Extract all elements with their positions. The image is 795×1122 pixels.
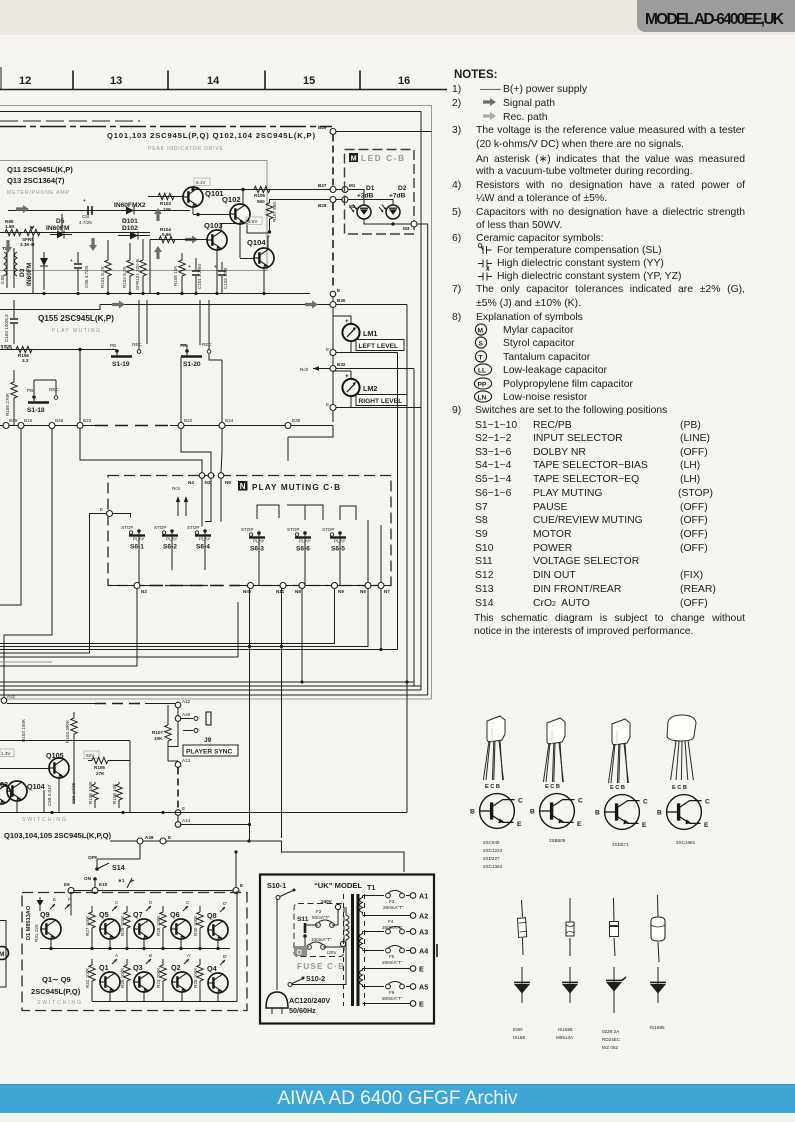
resistor R106 27K: [92, 757, 108, 763]
signal arrow left: [16, 205, 29, 213]
wire y309 left: [0, 305, 100, 310]
node N5: [218, 473, 224, 479]
ruler tick 12-13: [72, 71, 74, 90]
node B30: [330, 302, 336, 308]
resistor R108 10K: [116, 784, 122, 800]
label RIGHT LEVEL: [356, 395, 407, 406]
switch S6-2: [154, 525, 178, 551]
wire M3 right and down: [417, 224, 428, 695]
resistor R32 100K: [89, 965, 95, 981]
resistor R106 560: [254, 186, 270, 192]
node E lower: [175, 810, 181, 816]
node B48: [49, 423, 55, 429]
resistor R26 100K: [197, 965, 203, 981]
transistor Q8: [208, 920, 228, 940]
node M1: [342, 187, 348, 193]
signal arrow down T1: [4, 240, 12, 253]
resistor R30 100K: [197, 912, 203, 928]
voltage label 1.3V: [0, 749, 14, 757]
ruler tick 13-14: [167, 71, 169, 90]
node 120V: [340, 941, 345, 946]
node E under LM1: [330, 350, 336, 356]
PLAY MUTING C-B title: [238, 481, 248, 491]
junction dots band: [248, 645, 409, 684]
wires bottom row: [92, 959, 218, 1001]
wire top gray frame: [0, 106, 432, 700]
resistor R104 5.6K: [150, 239, 207, 241]
wire Q104 base: [240, 258, 254, 260]
wires into top nodes: [80, 429, 222, 473]
transformer T1 primary winding: [346, 907, 349, 985]
voltage label 8.1V: [194, 178, 210, 186]
node N8: [299, 583, 305, 589]
node N2: [134, 583, 140, 589]
UK MODEL box: [260, 875, 434, 1024]
signal arrow down C55: [89, 238, 97, 251]
gray signal frame meter amp: [0, 161, 267, 271]
node N9: [332, 583, 338, 589]
diode D102: [118, 235, 150, 237]
LED C-B box: [345, 150, 415, 235]
resistor R104 390K: [71, 718, 77, 734]
wire M2 to D2: [348, 200, 393, 206]
note symbol LN oval: [474, 391, 491, 402]
transistor Q102: [230, 204, 250, 224]
ruler tick 14-15: [264, 71, 266, 90]
LED C-B title: [349, 153, 358, 162]
secondary tap E2: [363, 1003, 411, 1005]
gray icon box: [294, 946, 307, 956]
wire main y232: [0, 232, 150, 234]
transistor Q7: [134, 919, 154, 939]
node B38: [285, 423, 291, 429]
node E under LM2: [330, 405, 336, 411]
transistor Q5: [100, 919, 120, 939]
resistor R25 100K: [124, 965, 130, 981]
wire N8 drop: [301, 589, 303, 683]
wire Q102 collector up: [242, 190, 244, 205]
node A26: [175, 716, 181, 722]
wire Q105 base line: [0, 741, 130, 769]
motor M partial left: [0, 921, 6, 988]
node N6: [365, 583, 371, 589]
wire main y210: [8, 210, 190, 212]
note arrow rec path: [483, 112, 496, 120]
wire B28 M2: [336, 199, 342, 201]
diode IS1555 drawing: [566, 898, 574, 956]
resistor R102 8.2K: [127, 260, 133, 276]
switch S6-5: [322, 527, 346, 553]
resistor R24 100K: [160, 965, 166, 981]
wire M1 to D1: [348, 190, 364, 206]
wire E to S6-1: [113, 514, 131, 518]
node E9: [68, 888, 74, 894]
resistor R107 10K: [165, 725, 171, 741]
transistor symbol 2SC945: [470, 794, 523, 829]
node 240V: [335, 904, 340, 909]
switch S6-4: [187, 525, 211, 551]
capacitor C101 2.2/50: [195, 258, 197, 293]
node N7: [378, 583, 384, 589]
LED D1: [350, 204, 371, 219]
transistor symbol 2SC1681: [657, 795, 710, 830]
wire B24 vertical up: [209, 354, 222, 422]
signal arrow up mid: [154, 208, 162, 221]
transistor Q3: [134, 972, 154, 992]
node N10: [248, 583, 254, 589]
wire stubs left: [33, 214, 150, 293]
wire Q103 emitter down: [216, 250, 218, 293]
label LEFT LEVEL: [356, 340, 404, 351]
secondary tap A1: [363, 895, 411, 897]
signal arrow to Q103: [185, 236, 198, 244]
wire Q102 emitter down: [247, 223, 269, 233]
node B15: [18, 423, 24, 429]
node E10: [92, 888, 98, 894]
main bus y425: [0, 425, 95, 427]
switch S10-1: [276, 896, 280, 900]
model label box: [637, 0, 795, 32]
note arrow signal path: [483, 98, 496, 106]
A4 dash mark: [436, 944, 438, 957]
note symbol LL oval: [474, 364, 491, 375]
transistor Q2: [172, 972, 192, 992]
transistor Q4: [208, 973, 228, 993]
node A13: [175, 762, 181, 768]
wire N10 drop: [249, 589, 251, 842]
node B32: [330, 366, 336, 372]
ruler tick 15-16: [359, 71, 361, 90]
wire B15 drop: [0, 429, 21, 606]
N bus line: [108, 585, 150, 587]
wire band y653: [0, 652, 90, 654]
resistor R29 100K: [124, 912, 130, 928]
package 2SB605 drawing: [543, 718, 565, 782]
meter LM1: [333, 316, 351, 353]
node M3: [411, 221, 417, 227]
note ceramic symbol SL: [478, 244, 491, 254]
switch S11: [304, 923, 307, 933]
PLAY MUTING C-B box: [108, 476, 391, 586]
wire bottom bus y293: [0, 293, 310, 295]
capacitor C102 1/50: [221, 262, 223, 293]
transistor symbol 2SB605: [530, 794, 583, 829]
wire primary left: [276, 900, 278, 991]
node E top: [330, 291, 336, 297]
junction dots bus y293: [42, 292, 265, 295]
wire SWITCHING border y812: [0, 812, 407, 814]
package 2SC1681 drawing: [667, 715, 696, 780]
transformer core: [351, 894, 354, 1006]
wire N9 corner: [0, 589, 335, 644]
resistor R155 270K: [11, 382, 17, 398]
transistor symbol 2SD571: [595, 795, 648, 830]
wire B29 to right frame: [336, 131, 432, 133]
wire signal y304 with arrows: [100, 304, 330, 306]
node E play muting: [107, 511, 113, 517]
wire Q103 collector to Q102: [221, 224, 240, 231]
node N4: [199, 473, 205, 479]
node B29: [330, 129, 336, 135]
wire band y662 gray: [0, 661, 52, 663]
wire A14 to right: [181, 824, 250, 826]
wire y841: [110, 841, 404, 872]
transistor Q104 lower: [7, 781, 27, 801]
wire S1-20 feeds: [181, 300, 209, 351]
note symbol M circle: [475, 324, 486, 335]
node B28: [330, 197, 336, 203]
resistor R101 8.2K: [105, 260, 111, 276]
transformer secondary winding: [360, 896, 363, 915]
transistor Q6: [171, 919, 191, 939]
diode IN60 drawing: [518, 900, 528, 955]
wire S1-19 REC up: [139, 300, 147, 350]
node B23: [77, 423, 83, 429]
wire y890: [74, 881, 233, 891]
note symbol PP oval: [474, 378, 491, 389]
node B24: [219, 423, 225, 429]
wire E to switch row: [235, 852, 237, 887]
wire Q101 collector: [192, 187, 194, 214]
wire Q104 emitter down: [263, 268, 265, 293]
diode IS1885 drawing: [651, 895, 665, 962]
transistor Q101: [183, 187, 203, 207]
meter LM2: [333, 371, 351, 408]
switch S6-3: [241, 527, 265, 553]
wire A13 chain: [168, 722, 178, 762]
wire meter outputs to bundle: [336, 305, 421, 408]
resistor R107 680: [266, 203, 272, 219]
capacitor C51 4.7/25: [62, 210, 110, 212]
wire Q101 emitter to Q102 base: [193, 214, 230, 216]
pot SFR101 22K-B: [140, 260, 146, 276]
wire S1-18 drops: [34, 380, 56, 401]
voltage label 8.5V: [246, 217, 262, 225]
ruler scale line: [0, 67, 447, 90]
wire LED bottoms to M3: [364, 219, 413, 224]
node A39: [137, 838, 143, 844]
wire band y657: [0, 602, 238, 657]
node E right of A39: [160, 838, 166, 844]
node B22: [178, 423, 184, 429]
wire dashed B28 down to E: [332, 203, 334, 291]
secondary tap E1: [363, 968, 411, 970]
package 2SD571 drawing: [608, 719, 630, 783]
node 8.5V junction: [268, 230, 271, 233]
jack J9: [181, 718, 193, 720]
node A22: [1, 698, 7, 704]
note ceramic symbol YP: [478, 273, 492, 281]
transistor Q9: [41, 919, 61, 939]
AC plug: [266, 992, 288, 1008]
transistor Q1: [100, 972, 120, 992]
wire N6 corner: [0, 589, 368, 647]
switch S6-1: [121, 525, 145, 551]
note symbol T circle: [475, 351, 486, 362]
bottom bus in box: [92, 891, 237, 1002]
diode D5 IN60FM: [50, 234, 72, 236]
right wire bundle verticals: [397, 353, 399, 650]
switch S10-2: [288, 983, 292, 987]
wire B27 M1: [336, 189, 342, 191]
transformer dashed boundaries: [343, 894, 345, 1006]
LED D2: [379, 204, 400, 219]
wire B22 vertical up: [180, 357, 182, 422]
resistor R156 3.3: [16, 346, 32, 352]
wire A13 dashed to E: [177, 768, 179, 810]
wire dashed vertical B29 to B27: [332, 135, 334, 187]
secondary tap A5: [363, 986, 411, 988]
note symbol S circle: [475, 337, 486, 348]
transistor Q105: [49, 758, 69, 778]
wires switches to N bus: [139, 520, 381, 585]
wire N7 corner: [0, 589, 398, 650]
voltage label 9.2V: [84, 751, 99, 759]
note ceramic symbol YY: [478, 260, 492, 271]
transistor Q103 partial: [0, 784, 11, 804]
wire E loop left: [90, 514, 107, 654]
wire meter column: [332, 308, 334, 423]
resistor R89 1.8K: [5, 229, 21, 235]
mid bus in box: [40, 948, 230, 950]
wire A22 line y703: [7, 703, 95, 705]
wire Q103 base: [174, 239, 207, 241]
resistor R105 330K: [92, 784, 98, 800]
wire top dashed frame: [0, 120, 140, 122]
switching box dashed: [22, 893, 247, 1011]
wire S10-2 to transformer: [292, 984, 346, 986]
wire collector bus y189: [193, 189, 330, 191]
wire main B+ down to switching border: [406, 682, 408, 813]
pot SFR5 3.3K-B: [24, 229, 40, 235]
resistor R105 10K: [179, 260, 185, 276]
node B27: [330, 187, 336, 193]
package 2SC945 drawing: [483, 716, 505, 780]
fuse area dashed box: [294, 904, 344, 957]
secondary tap A2: [363, 915, 411, 917]
resistor R27 100K: [89, 912, 95, 928]
wire N2 drop: [0, 589, 137, 667]
wire B23 vertical: [79, 350, 81, 422]
wire band corners right bundle: [0, 681, 414, 683]
node M2: [342, 197, 348, 203]
resistor R28 100K: [160, 912, 166, 928]
wire Q104 collector: [268, 236, 270, 249]
transistor Q103: [207, 230, 227, 250]
wires switch tops: [202, 479, 356, 527]
wire N11 drop: [281, 589, 283, 839]
diode D101: [126, 207, 134, 215]
capacitor C55 4.7/25: [77, 252, 79, 291]
wire R107 to B28: [270, 199, 331, 201]
secondary tap A4: [363, 950, 411, 952]
node B49: [3, 423, 9, 429]
wire R156 line y349: [0, 349, 116, 351]
wire B48 drop to A22: [4, 429, 52, 698]
wire emitters to bus y808: [17, 741, 130, 812]
resistor R103 10K: [148, 196, 183, 198]
secondary tap A3: [363, 931, 411, 933]
label PLAYER SYNC: [183, 745, 238, 756]
diode 02Z6 drawing zener: [610, 898, 619, 956]
switch S6-6: [287, 527, 311, 553]
footer banner: [0, 1084, 795, 1113]
transistor Q104: [254, 248, 274, 268]
node E switching right: [233, 888, 239, 894]
node A14: [175, 822, 181, 828]
junction dot y349: [78, 348, 81, 351]
node N3: [208, 473, 214, 479]
wire top inner frame: [0, 112, 421, 691]
node N11: [280, 583, 286, 589]
wire top dash-dot frame to B29: [0, 126, 332, 128]
node A12: [175, 702, 181, 708]
wires top row: [51, 894, 218, 949]
